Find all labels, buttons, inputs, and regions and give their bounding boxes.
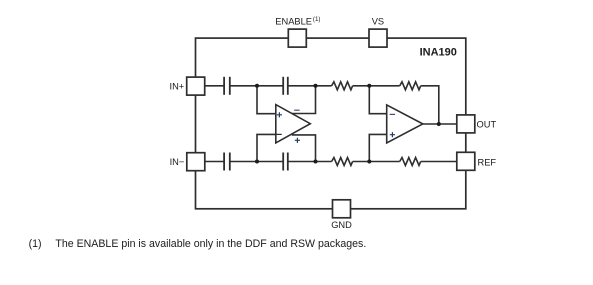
wire node E up to A1 bottom feedback [292, 135, 316, 162]
resistor R4 (REF) [400, 158, 421, 166]
A2 -input polarity mark [390, 113, 395, 115]
wire A2 output to OUT pin [423, 123, 457, 125]
wire IN- to C3 [205, 161, 224, 163]
A1 bottom feedback plus mark [295, 138, 300, 143]
svg-text:REF: REF [478, 157, 497, 167]
capacitor C3 (IN- series) [224, 153, 230, 171]
wire R4 to REF pin [421, 161, 457, 163]
svg-text:IN−: IN− [170, 157, 185, 167]
svg-text:(1): (1) [29, 238, 42, 250]
op-amp A1 (input chopper amplifier) [276, 105, 311, 143]
A1 -input polarity mark [276, 133, 281, 135]
pin IN- [187, 153, 205, 171]
node C junction [367, 84, 371, 88]
wire R3 to R4 through node F [353, 161, 400, 163]
svg-text:IN+: IN+ [170, 81, 185, 91]
resistor R3 (bottom input) [332, 158, 353, 166]
wire C3 to C4 through node D [230, 161, 283, 163]
wire C1 to C2 through node A [230, 85, 283, 87]
wire C2 to R1 through node B [288, 85, 332, 87]
A1 +input polarity mark [277, 112, 282, 117]
wire node B down to A1 top feedback [291, 86, 315, 114]
node D junction [255, 160, 259, 164]
pin IN+ [187, 77, 205, 95]
resistor R2 (top feedback) [400, 82, 421, 90]
device boundary box [196, 38, 466, 209]
wire R1 to R2 through node C [353, 85, 400, 87]
capacitor C1 (IN+ series) [224, 77, 230, 95]
pin GND [333, 200, 351, 218]
wire node F up to A2 +input [369, 134, 386, 161]
wire node A down to A1 +input [257, 86, 276, 114]
wire node D up to A1 -input [257, 134, 276, 161]
capacitor C4 (feedback bottom) [283, 153, 288, 171]
pin OUT [457, 115, 475, 133]
node B junction [314, 84, 318, 88]
wire R2 to output node corner [421, 86, 439, 124]
pin REF [457, 152, 475, 170]
resistor R1 (top input) [332, 82, 353, 90]
svg-text:VS: VS [372, 16, 384, 26]
svg-text:GND: GND [331, 220, 352, 230]
svg-text:ENABLE: ENABLE [275, 16, 312, 26]
svg-text:(1): (1) [313, 16, 321, 23]
pin ENABLE [288, 29, 306, 47]
capacitor C2 (feedback top) [283, 77, 288, 95]
A2 +input polarity mark [390, 132, 395, 137]
svg-text:INA190: INA190 [420, 47, 457, 59]
pin VS [369, 29, 387, 47]
wire node C down to A2 -input [369, 86, 386, 114]
wire IN+ to C1 [205, 85, 224, 87]
node A junction [255, 84, 259, 88]
svg-text:OUT: OUT [477, 120, 497, 130]
wire C4 to R3 through node E [288, 161, 332, 163]
op-amp A2 (output amplifier) [387, 105, 423, 143]
node E junction [314, 160, 318, 164]
output node junction [437, 122, 441, 126]
A1 top feedback minus mark [294, 109, 299, 111]
svg-text:The ENABLE pin is available on: The ENABLE pin is available only in the … [55, 238, 366, 250]
node F junction [367, 160, 371, 164]
